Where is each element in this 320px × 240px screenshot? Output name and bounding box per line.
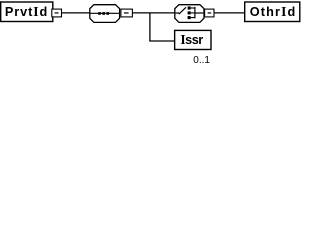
wire choice to OthrId bbox=[214, 12, 245, 14]
branch wire to Issr bbox=[149, 40, 174, 42]
wire sequence to choice bbox=[132, 12, 174, 14]
svg-text:PrvtId: PrvtId bbox=[5, 4, 47, 19]
wire PrvtId to sequence bbox=[62, 12, 90, 14]
junction vertical wire down to Issr branch bbox=[149, 13, 151, 41]
expand box (minus) after sequence bbox=[121, 9, 132, 17]
expand box (minus) after PrvtId bbox=[52, 9, 62, 17]
sequence icon: line with three dots bbox=[91, 12, 119, 14]
svg-text:Issr: Issr bbox=[180, 32, 203, 47]
expand box (minus) after choice bbox=[205, 9, 214, 17]
element box PrvtId bbox=[1, 2, 53, 22]
element box OthrId bbox=[245, 2, 300, 22]
svg-text:OthrId: OthrId bbox=[250, 4, 296, 19]
choice compositor octagon bbox=[175, 5, 204, 23]
choice icon: switch lever and three contacts bbox=[175, 12, 179, 14]
svg-text:0..1: 0..1 bbox=[193, 55, 210, 66]
sequence compositor octagon bbox=[90, 5, 120, 23]
element box Issr bbox=[175, 30, 211, 49]
